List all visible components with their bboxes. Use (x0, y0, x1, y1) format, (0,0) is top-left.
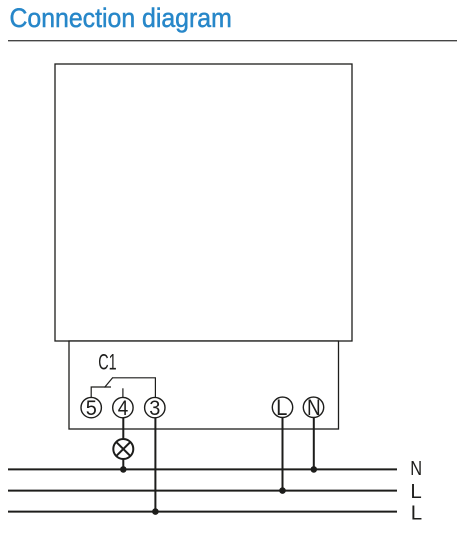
svg-text:3: 3 (149, 396, 160, 420)
wire terminal N to N line (313, 418, 315, 470)
mains line N (8, 468, 397, 470)
wire lamp to N line (122, 459, 124, 469)
title rule (8, 40, 457, 42)
wire terminal 3 to bottom L line (154, 418, 156, 512)
svg-text:L: L (410, 480, 421, 503)
contact fixed lead from terminal 5 (91, 387, 111, 398)
terminal N (303, 395, 323, 420)
junction wireN / N line (311, 466, 318, 473)
svg-text:L: L (411, 502, 422, 525)
lamp (load) symbol (113, 439, 133, 459)
terminal 3 (145, 396, 165, 420)
terminal L (272, 396, 292, 420)
wire terminal L to middle L line (282, 418, 284, 491)
svg-text:C1: C1 (98, 351, 116, 376)
mains line L (bottom) (8, 511, 397, 513)
wire from contact arm to terminal 3 (112, 378, 155, 398)
mains line L (middle) (8, 490, 397, 492)
terminal 4 (113, 397, 133, 420)
contact stub of terminal 4 (122, 388, 124, 397)
terminal block outline (69, 341, 339, 429)
svg-text:N: N (307, 395, 321, 420)
wire terminal 4 to lamp (122, 418, 124, 439)
junction lamp / N line (120, 466, 127, 473)
svg-text:4: 4 (118, 397, 129, 420)
svg-text:L: L (276, 396, 287, 420)
junction wireL / middle L line (279, 487, 286, 494)
svg-text:N: N (410, 456, 422, 479)
device outline (timer unit) (55, 64, 352, 341)
contact moving arm (105, 378, 113, 388)
svg-text:Connection diagram: Connection diagram (10, 4, 232, 33)
junction wire3 / bottom L line (152, 508, 159, 515)
svg-text:5: 5 (86, 396, 97, 420)
terminal 5 (81, 396, 101, 420)
